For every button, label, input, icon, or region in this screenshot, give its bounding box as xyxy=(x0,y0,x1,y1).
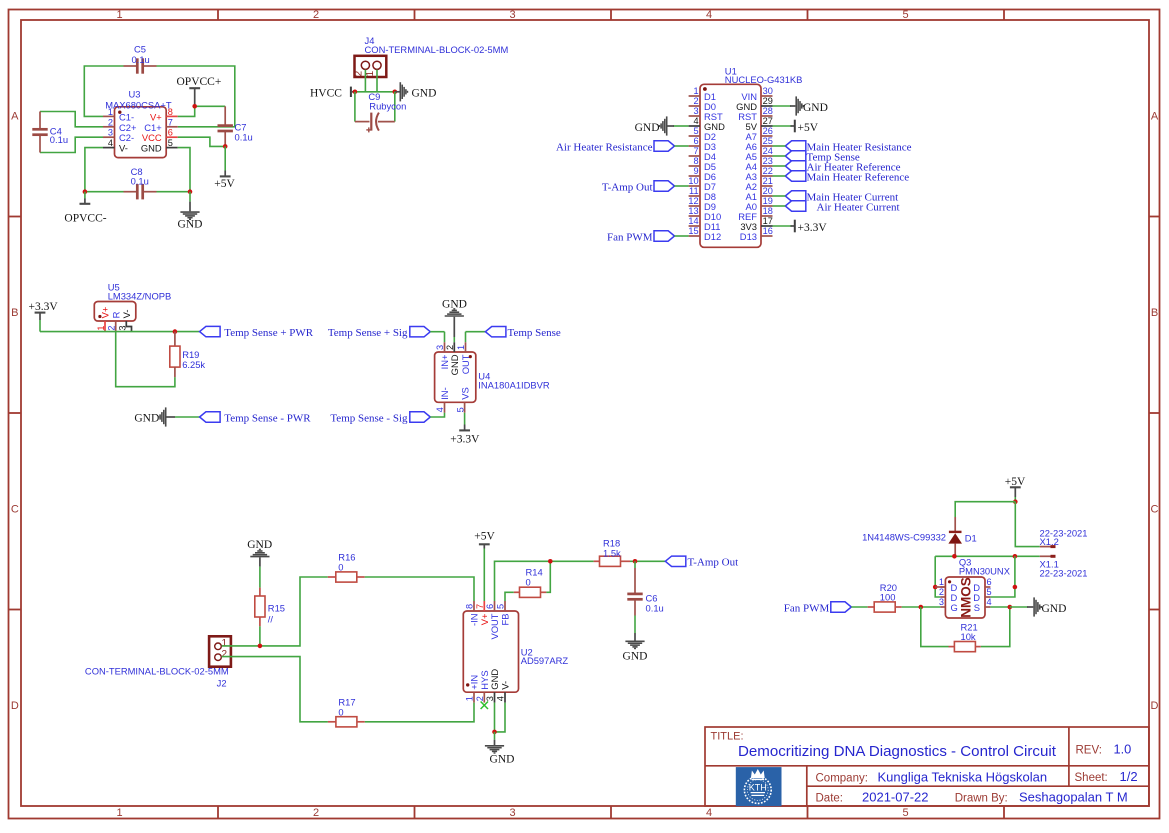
wire +3.3V rail xyxy=(40,331,200,333)
op-amp U3 xyxy=(103,89,178,158)
net port Temp Sense xyxy=(773,151,860,164)
svg-text:GND: GND xyxy=(803,102,828,114)
svg-text:C1-: C1- xyxy=(119,111,134,122)
resistor R20 xyxy=(868,582,902,612)
node junction xyxy=(1008,605,1013,610)
svg-text:3: 3 xyxy=(108,128,113,138)
svg-text:D: D xyxy=(1151,700,1159,712)
svg-text:A: A xyxy=(11,111,19,123)
wire R20 to gate xyxy=(902,606,941,608)
svg-text:V-: V- xyxy=(500,681,511,690)
wire J2 pin1 to R16 xyxy=(222,577,328,646)
resistor R14 xyxy=(505,567,546,602)
svg-text:3: 3 xyxy=(509,9,515,21)
svg-text:20: 20 xyxy=(763,186,773,196)
svg-text:0.1u: 0.1u xyxy=(132,54,150,65)
svg-text:1/2: 1/2 xyxy=(1120,769,1138,784)
svg-text:8: 8 xyxy=(168,107,173,117)
transistor Q3 xyxy=(935,556,1011,618)
svg-text:CON-TERMINAL-BLOCK-02-5MM: CON-TERMINAL-BLOCK-02-5MM xyxy=(85,666,229,677)
svg-text:5: 5 xyxy=(168,138,173,148)
svg-text:C: C xyxy=(11,504,19,516)
svg-text:G: G xyxy=(951,602,958,613)
net port Temp Sense + PWR xyxy=(200,326,314,339)
svg-text:12: 12 xyxy=(688,196,698,206)
svg-text:+3.3V: +3.3V xyxy=(450,433,480,445)
power +3.3V xyxy=(29,301,59,332)
svg-text:CON-TERMINAL-BLOCK-02-5MM: CON-TERMINAL-BLOCK-02-5MM xyxy=(365,44,509,55)
svg-text:1: 1 xyxy=(116,807,122,819)
svg-text:8: 8 xyxy=(465,604,475,609)
capacitor C6 xyxy=(627,561,663,615)
svg-text:AD597ARZ: AD597ARZ xyxy=(521,655,569,666)
svg-text:GND: GND xyxy=(178,218,203,230)
svg-text:3: 3 xyxy=(693,106,698,116)
svg-text:2: 2 xyxy=(313,807,319,819)
node junction xyxy=(192,104,197,109)
svg-text:5: 5 xyxy=(902,807,908,819)
svg-text:2: 2 xyxy=(693,96,698,106)
node junction xyxy=(933,585,938,590)
svg-text:6.25k: 6.25k xyxy=(182,359,205,370)
net port Air Heater Resistance xyxy=(556,141,689,154)
svg-text:6: 6 xyxy=(987,577,992,587)
capacitor C9 polarized xyxy=(355,91,406,132)
svg-text:3: 3 xyxy=(435,345,445,350)
svg-text:7: 7 xyxy=(693,146,698,156)
svg-text:VCC: VCC xyxy=(142,132,162,143)
resistor R19 xyxy=(170,332,206,378)
svg-text:24: 24 xyxy=(763,146,773,156)
power +3.3V at U1 pin17 xyxy=(773,220,828,234)
svg-text:1: 1 xyxy=(222,638,228,649)
net port Temp Sense - PWR xyxy=(200,412,312,425)
svg-text:3: 3 xyxy=(485,696,495,701)
svg-text:V+: V+ xyxy=(100,306,111,318)
svg-text:4: 4 xyxy=(108,138,113,148)
node junction xyxy=(258,644,263,649)
svg-text:22-23-2021: 22-23-2021 xyxy=(1040,528,1088,539)
svg-text:100: 100 xyxy=(880,592,896,603)
wire R18 to T-Amp Out xyxy=(630,560,665,562)
svg-text:2: 2 xyxy=(108,117,113,127)
svg-text:19: 19 xyxy=(763,196,773,206)
svg-text:13: 13 xyxy=(688,206,698,216)
svg-text:1: 1 xyxy=(939,577,944,587)
svg-text:Kungliga Tekniska Högskolan: Kungliga Tekniska Högskolan xyxy=(878,769,1048,784)
svg-text:+5V: +5V xyxy=(798,122,819,134)
svg-text:+3.3V: +3.3V xyxy=(29,301,59,313)
ground GND at U1 pin29 xyxy=(773,96,828,115)
net port T-Amp Out xyxy=(602,181,689,194)
wire to U4 pin3 xyxy=(444,332,446,343)
svg-text:GND: GND xyxy=(412,88,437,100)
svg-text:4: 4 xyxy=(987,597,992,607)
svg-text:C: C xyxy=(1151,504,1159,516)
svg-text:VOUT: VOUT xyxy=(489,613,500,639)
svg-text:10k: 10k xyxy=(961,631,976,642)
svg-text:7: 7 xyxy=(168,117,173,127)
svg-text:B: B xyxy=(1151,307,1158,319)
ground GND flag right xyxy=(1010,597,1067,616)
svg-text:MAX680CSA+T: MAX680CSA+T xyxy=(105,99,172,110)
net port Main Heater Resistance xyxy=(773,141,912,154)
power +5V at U1 pin27 xyxy=(773,120,819,134)
svg-text:Rubycon: Rubycon xyxy=(369,101,406,112)
svg-text:1: 1 xyxy=(693,86,698,96)
svg-text:LM334Z/NOPB: LM334Z/NOPB xyxy=(108,290,172,301)
svg-text:Temp Sense - Sig: Temp Sense - Sig xyxy=(330,412,408,424)
svg-text:V+: V+ xyxy=(150,111,162,122)
svg-text:1.0: 1.0 xyxy=(1114,742,1132,757)
wire VOUT to R18 xyxy=(495,561,594,601)
net port Fan PWM xyxy=(784,602,868,615)
svg-text:4: 4 xyxy=(496,696,506,701)
svg-text:GND: GND xyxy=(141,143,162,154)
svg-text:+5V: +5V xyxy=(474,531,495,543)
resistor R21 xyxy=(949,621,981,651)
svg-text:21: 21 xyxy=(763,176,773,186)
net port Main Heater Current xyxy=(773,191,899,204)
svg-text:1.5k: 1.5k xyxy=(603,547,621,558)
svg-text:+3.3V: +3.3V xyxy=(798,222,828,234)
svg-text:6: 6 xyxy=(693,136,698,146)
svg-text:5: 5 xyxy=(987,587,992,597)
node junction xyxy=(633,559,638,564)
diode D1 xyxy=(862,517,977,556)
svg-text:26: 26 xyxy=(763,126,773,136)
capacitor C5 xyxy=(124,44,157,74)
svg-text:5: 5 xyxy=(902,9,908,21)
op-amp U1 xyxy=(700,65,802,247)
svg-text:R: R xyxy=(110,311,121,318)
svg-text:Temp Sense + PWR: Temp Sense + PWR xyxy=(224,327,314,339)
svg-text:C5: C5 xyxy=(134,44,146,55)
svg-text:1: 1 xyxy=(108,107,113,117)
ground GND flag row B xyxy=(134,407,199,426)
svg-text:GND: GND xyxy=(134,412,159,424)
pin X1.2 xyxy=(1040,528,1088,548)
svg-text:10: 10 xyxy=(688,176,698,186)
connector J2 xyxy=(85,636,231,688)
svg-text:Drawn By:: Drawn By: xyxy=(955,793,1008,805)
net port Air Heater Reference xyxy=(773,161,901,174)
svg-text:2: 2 xyxy=(445,345,455,350)
svg-text:C2+: C2+ xyxy=(119,122,137,133)
svg-text:+5V: +5V xyxy=(1005,476,1026,488)
svg-text:T-Amp Out: T-Amp Out xyxy=(688,557,739,569)
svg-text:1: 1 xyxy=(456,345,466,350)
wire R14 up to VOUT rail xyxy=(546,561,550,592)
svg-text:4: 4 xyxy=(435,407,445,412)
transistor U5 xyxy=(94,281,171,331)
svg-text:Date:: Date: xyxy=(816,793,844,805)
svg-text:Temp Sense + Sig: Temp Sense + Sig xyxy=(328,327,408,339)
svg-text:OUT: OUT xyxy=(460,354,471,374)
svg-text:6: 6 xyxy=(485,604,495,609)
svg-text:OPVCC+: OPVCC+ xyxy=(177,76,222,88)
svg-text:0.1u: 0.1u xyxy=(131,176,149,187)
resistor R18 xyxy=(594,537,630,566)
svg-text:15: 15 xyxy=(688,226,698,236)
net port T-Amp Out xyxy=(665,556,738,569)
wire drain rail xyxy=(935,555,1040,557)
wire OPVCC- rail with C8 xyxy=(85,191,190,193)
wire pin8 to OPVCC+ node xyxy=(178,106,226,116)
svg-text:GND: GND xyxy=(1042,603,1067,615)
net port Temp Sense xyxy=(466,327,561,343)
svg-text:V-: V- xyxy=(121,310,132,319)
resistor R16 xyxy=(328,552,365,582)
svg-text:Air Heater Resistance: Air Heater Resistance xyxy=(556,141,653,153)
svg-text:Sheet:: Sheet: xyxy=(1075,772,1108,784)
power +3.3V at U4 xyxy=(450,413,480,446)
wire gate to R21 xyxy=(921,607,949,647)
svg-text://: // xyxy=(268,613,274,624)
wire J4 pins down xyxy=(365,70,377,92)
power +5V xyxy=(1005,476,1026,502)
wire pin6 VCC to +5V node xyxy=(178,137,226,146)
svg-text:25: 25 xyxy=(763,136,773,146)
ground GND at U1 pin4 xyxy=(635,116,689,135)
svg-text:Temp Sense - PWR: Temp Sense - PWR xyxy=(224,412,311,424)
svg-text:2: 2 xyxy=(475,696,485,701)
svg-text:HVCC: HVCC xyxy=(310,88,342,100)
no-connect X on HYS xyxy=(481,702,488,710)
svg-text:TITLE:: TITLE: xyxy=(711,731,744,743)
capacitor C8 xyxy=(124,166,157,199)
svg-text:11: 11 xyxy=(689,186,699,196)
svg-text:1: 1 xyxy=(365,70,376,76)
svg-text:5: 5 xyxy=(496,604,506,609)
svg-text:FB: FB xyxy=(500,614,511,626)
svg-text:+5V: +5V xyxy=(214,178,235,190)
svg-text:NUCLEO-G431KB: NUCLEO-G431KB xyxy=(725,74,803,85)
net port Fan PWM xyxy=(607,231,689,244)
svg-text:0.1u: 0.1u xyxy=(50,134,68,145)
svg-text:S: S xyxy=(974,602,980,613)
svg-text:B: B xyxy=(11,307,18,319)
svg-text:IN-: IN- xyxy=(439,387,450,400)
node junction xyxy=(1013,499,1018,504)
node junction xyxy=(83,189,88,194)
svg-text:J2: J2 xyxy=(217,678,227,689)
frame column numbers xyxy=(116,9,908,819)
ground GND below C6 xyxy=(623,616,648,663)
wire J2 pin2 to R17 xyxy=(222,657,328,722)
svg-text:3: 3 xyxy=(939,597,944,607)
svg-text:0.1u: 0.1u xyxy=(646,603,664,614)
wire rail to Q3 pins 1-2 xyxy=(935,556,940,597)
power +5V xyxy=(214,146,235,190)
svg-text:Main Heater Reference: Main Heater Reference xyxy=(807,171,910,183)
svg-text:5: 5 xyxy=(693,126,698,136)
U1 pins xyxy=(688,86,772,242)
svg-text:Fan PWM: Fan PWM xyxy=(607,231,653,243)
ground GND flag xyxy=(395,82,437,101)
power OPVCC+ xyxy=(177,76,222,107)
net port Air Heater Current xyxy=(773,201,900,214)
capacitor C4 xyxy=(32,112,103,153)
svg-text:REV:: REV: xyxy=(1076,744,1102,756)
connector J4 xyxy=(353,35,508,77)
svg-text:0: 0 xyxy=(338,562,343,573)
svg-text:KTH: KTH xyxy=(749,783,767,793)
svg-text:Air Heater Current: Air Heater Current xyxy=(817,201,900,213)
svg-text:0: 0 xyxy=(526,577,531,588)
resistor R17 xyxy=(328,697,365,727)
svg-text:C1+: C1+ xyxy=(144,122,162,133)
svg-text:29: 29 xyxy=(763,96,773,106)
svg-text:2: 2 xyxy=(353,70,364,76)
svg-text:2021-07-22: 2021-07-22 xyxy=(862,790,929,805)
svg-text:16: 16 xyxy=(763,226,773,236)
resistor R15 xyxy=(255,588,285,627)
KTH logo xyxy=(736,767,782,806)
wire R16 to U2 pin8 xyxy=(365,577,474,601)
node junction xyxy=(492,730,497,735)
svg-text:Company:: Company: xyxy=(816,772,868,784)
wire R17 to U2 pin1 xyxy=(365,703,474,722)
svg-text:0: 0 xyxy=(338,707,343,718)
svg-text:D: D xyxy=(11,700,19,712)
svg-text:17: 17 xyxy=(763,216,773,226)
svg-text:14: 14 xyxy=(688,216,698,226)
svg-text:30: 30 xyxy=(763,86,773,96)
net port Main Heater Reference xyxy=(773,171,910,184)
node junction xyxy=(353,90,358,95)
frame row letters xyxy=(11,111,1159,713)
svg-text:4: 4 xyxy=(706,807,712,819)
op-amp U4 xyxy=(435,342,550,413)
svg-text:Seshagopalan T M: Seshagopalan T M xyxy=(1019,790,1128,805)
svg-text:GND: GND xyxy=(623,651,648,663)
svg-text:23: 23 xyxy=(763,156,773,166)
svg-text:T-Amp Out: T-Amp Out xyxy=(602,181,653,193)
svg-text:1: 1 xyxy=(465,696,475,701)
svg-text:Democritizing DNA Diagnostics: Democritizing DNA Diagnostics - Control … xyxy=(738,743,1057,760)
svg-text:27: 27 xyxy=(763,116,773,126)
svg-text:D12: D12 xyxy=(704,231,721,242)
wire pin4 to OPVCC- rail xyxy=(85,148,103,192)
ground GND top xyxy=(442,298,467,342)
svg-text:Temp Sense: Temp Sense xyxy=(508,327,561,339)
wire U2 GND V- to ground xyxy=(495,703,506,732)
svg-text:22-23-2021: 22-23-2021 xyxy=(1040,567,1088,578)
power +5V above U2 xyxy=(474,531,495,601)
wire HVCC rail xyxy=(355,91,395,93)
title block xyxy=(705,727,1149,806)
wire top rail C5 xyxy=(84,66,235,127)
wire pin5 GND down xyxy=(178,148,190,192)
svg-text:3: 3 xyxy=(509,807,515,819)
svg-text:1N4148WS-C99332: 1N4148WS-C99332 xyxy=(862,532,946,543)
power HVCC flag xyxy=(310,87,355,100)
svg-text:Fan PWM: Fan PWM xyxy=(784,603,830,615)
svg-text:NMOS: NMOS xyxy=(958,577,973,618)
svg-text:0.1u: 0.1u xyxy=(235,132,253,143)
node junction xyxy=(548,559,553,564)
svg-text:4: 4 xyxy=(693,116,698,126)
ground GND below U2 xyxy=(485,732,515,766)
svg-text:28: 28 xyxy=(763,106,773,116)
svg-text:GND: GND xyxy=(489,669,500,690)
svg-text:VS: VS xyxy=(459,387,470,400)
svg-text:9: 9 xyxy=(693,166,698,176)
svg-text:GND: GND xyxy=(449,354,460,375)
svg-text:7: 7 xyxy=(475,604,485,609)
node junction xyxy=(952,554,957,559)
svg-text:2: 2 xyxy=(939,587,944,597)
net port Temp Sense - Sig xyxy=(330,412,444,425)
svg-text:R15: R15 xyxy=(268,602,285,613)
svg-text:2: 2 xyxy=(222,649,228,660)
svg-text:D13: D13 xyxy=(740,231,757,242)
ground GND above R15 xyxy=(247,539,272,587)
svg-text:GND: GND xyxy=(490,754,515,766)
wire rail to Q3 pins 6-5 xyxy=(990,556,1015,597)
pin X1.1 xyxy=(1040,556,1088,578)
wire R19 bottom loop to U5 pin2 xyxy=(116,332,175,387)
power OPVCC- xyxy=(64,192,106,225)
svg-text:A: A xyxy=(1151,111,1159,123)
svg-text:22: 22 xyxy=(763,166,773,176)
svg-text:2: 2 xyxy=(313,9,319,21)
ground GND xyxy=(178,192,203,231)
svg-text:PMN30UNX: PMN30UNX xyxy=(959,565,1011,576)
svg-text:8: 8 xyxy=(693,156,698,166)
svg-text:5: 5 xyxy=(455,407,465,412)
svg-text:GND: GND xyxy=(635,122,660,134)
svg-text:C2-: C2- xyxy=(119,132,134,143)
node junction xyxy=(919,605,924,610)
wire R15 to J2 pin1 xyxy=(259,626,261,646)
svg-text:INA180A1IDBVR: INA180A1IDBVR xyxy=(478,380,550,391)
svg-text:4: 4 xyxy=(706,9,712,21)
node junction xyxy=(223,144,228,149)
net port Temp Sense + Sig xyxy=(328,327,445,340)
node junction xyxy=(173,329,178,334)
op-amp U2 xyxy=(463,601,568,703)
svg-text:6: 6 xyxy=(168,128,173,138)
wire +5V to X1.2 xyxy=(1015,502,1040,547)
svg-text:1: 1 xyxy=(116,9,122,21)
svg-text:U3: U3 xyxy=(129,89,141,100)
svg-text:D1: D1 xyxy=(965,533,977,544)
capacitor C7 xyxy=(218,106,253,146)
wire +5V to D1 xyxy=(955,502,1015,517)
svg-text:OPVCC-: OPVCC- xyxy=(64,213,106,225)
svg-text:18: 18 xyxy=(763,206,773,216)
svg-text:V-: V- xyxy=(119,143,128,154)
wire R21 to source xyxy=(981,607,1010,647)
